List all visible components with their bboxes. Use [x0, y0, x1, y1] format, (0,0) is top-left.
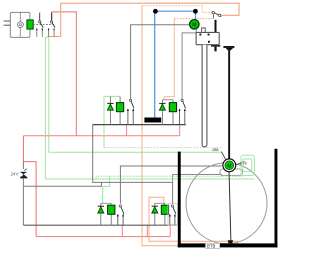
- node junction dot B: [193, 9, 198, 14]
- green selection rect inner around eTe: [243, 159, 252, 172]
- wire red stub bus to bottom at x=170.2: [169, 225, 171, 236]
- battery 24V: [11, 169, 28, 181]
- K4 diode: [154, 203, 156, 225]
- valve V1 body: [10, 12, 30, 37]
- K4 contact module outline: [168, 204, 178, 226]
- relay K1: [107, 96, 134, 124]
- wire gray battery minus rail: [23, 181, 101, 186]
- suspension bell: [223, 46, 234, 51]
- wire gray drum motor lower terminal to K4 drop: [173, 175, 222, 183]
- svg-text:M: M: [227, 163, 231, 169]
- K2 coil: [172, 100, 174, 125]
- valve inlet pipes: [4, 21, 11, 25]
- pendulum line from drum motor to bottom: [229, 166, 231, 242]
- K1 contact: [129, 99, 131, 101]
- black terminal bar: [144, 118, 161, 123]
- mechanical link dashed: [33, 24, 54, 26]
- K4 rail: [155, 202, 165, 204]
- link motor right terminal to eTe label: [236, 163, 240, 165]
- K4 coil: [164, 203, 166, 225]
- svg-text:24V: 24V: [11, 172, 20, 177]
- wire orange vertical x=142 full drop: [142, 6, 216, 246]
- gearbox foot leg: [214, 47, 216, 52]
- tank left wall: [178, 152, 181, 248]
- gearbox top pin: [202, 28, 206, 33]
- K1 diode: [109, 96, 111, 124]
- wire blue small motor to gear box: [195, 29, 197, 33]
- tank bottom: [178, 243, 278, 247]
- K1 coil: [119, 96, 121, 124]
- wire orange dashed from level switch lower to K2 coil: [174, 18, 212, 20]
- wire gray battery minus down to bottom bus: [22, 186, 24, 225]
- pendulum weight: [228, 240, 234, 243]
- motor mount rounded rect under drum motor: [220, 169, 242, 176]
- gearbox body: [196, 32, 219, 44]
- wire lightgreen horizontal y=178.8 crossing tank wall: [45, 178, 254, 180]
- switch contact C2: [48, 13, 55, 37]
- gearbox foot bar: [211, 45, 220, 46]
- wire red from contact C2 top to right and down: [52, 12, 76, 136]
- drum motor M2: [223, 159, 236, 172]
- tank right wall: [275, 149, 278, 248]
- wire red horizontal mid rail y=135.8: [23, 135, 179, 137]
- K4 contact: [171, 205, 173, 207]
- wire red stub bus to bottom at x=147.3: [146, 225, 148, 236]
- wire blue vertical to bar: [154, 11, 156, 117]
- wire red bottom horizontal y=236.6: [36, 236, 170, 238]
- wire gray gearbox to K2 contact: [182, 33, 196, 100]
- switch contact C1: [36, 13, 43, 37]
- wire red stub bus to bottom at x=122: [121, 225, 123, 236]
- level switch S1 top right: [212, 11, 221, 18]
- actuator rod from level switch to gearbox: [215, 20, 217, 33]
- relay K3: [98, 203, 125, 225]
- wire red stub under K2 contact: [179, 125, 181, 136]
- relay K2: [159, 99, 186, 124]
- suspension rod to drum motor: [228, 51, 230, 159]
- pendulum switch label BTB: [206, 243, 220, 248]
- bus bar K1 K2 bottom rail: [93, 124, 186, 126]
- relay K4: [152, 203, 176, 225]
- green selection rect outer around eTe: [241, 155, 254, 175]
- wire lightgreen vertical pair from valve contacts: [45, 37, 48, 179]
- wire red battery plus jog: [23, 136, 36, 237]
- bus bar bottom rail from battery: [23, 224, 176, 226]
- wire gray battery top stub: [22, 162, 24, 169]
- valve V1 green indicator: [27, 20, 33, 29]
- wire gray motor feed to K1 contact: [131, 25, 190, 100]
- tank drum circle: [186, 163, 267, 244]
- small pump motor M1: [190, 20, 199, 29]
- svg-text:M: M: [192, 22, 196, 28]
- wire orange big loop valve contact to level switch right: [48, 3, 240, 36]
- K2 contact: [181, 99, 183, 101]
- svg-text:eTe: eTe: [240, 161, 248, 166]
- sensor label aIa with pointer: [212, 147, 226, 160]
- wire lightgreen horizontal y=175.9: [96, 176, 243, 179]
- wire lightgreen horizontal to aIa sensor y=147.6: [104, 147, 222, 149]
- wire orange K4 coil to bottom pendulum switch: [149, 197, 238, 244]
- wire gray drum motor left terminal to K3 contact: [120, 166, 221, 204]
- K3 contact: [119, 205, 121, 207]
- wire lightgreen horizontal to aIa sensor y=150.9: [49, 151, 222, 153]
- K2 diode: [161, 100, 163, 125]
- node junction dot A: [153, 9, 158, 14]
- K3 diode: [100, 203, 102, 225]
- wire lightgreen drop from y=175.9 to relay K3: [103, 176, 110, 203]
- K2 rail: [162, 99, 173, 101]
- svg-text:aIa: aIa: [212, 147, 219, 152]
- wire gray K1K2 bus drop and run to K4 contact: [93, 125, 173, 204]
- wire orange dashed top to level switch pivot: [142, 6, 212, 13]
- piston rod below gearbox: [202, 45, 207, 147]
- wire red stub under K1 contact: [126, 125, 128, 136]
- K3 rail: [101, 202, 111, 204]
- svg-text:BTB: BTB: [207, 244, 215, 249]
- gearbox dots: [199, 34, 201, 36]
- wire blue to small motor: [195, 11, 197, 20]
- wire lightgreen K1 coil rail and drop to bus: [104, 96, 120, 147]
- K3 coil: [110, 203, 112, 225]
- wire blue junction to black bar: [155, 10, 195, 12]
